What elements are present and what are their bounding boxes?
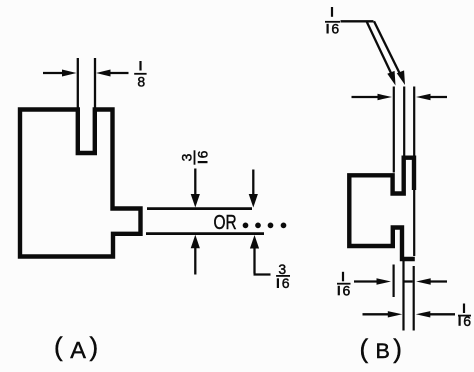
sheet line upper left [393, 87, 395, 173]
svg-text:6: 6 [195, 150, 211, 158]
extension line right (slot) [94, 58, 96, 108]
svg-text:6: 6 [331, 21, 339, 37]
leader arrowhead 1 [387, 71, 395, 86]
up arrow 2 with leader to 3/16 [250, 235, 271, 275]
svg-text:A: A [70, 337, 86, 363]
svg-text:6: 6 [463, 313, 471, 329]
svg-text:(: ( [54, 332, 63, 362]
sheet line lower right [413, 266, 415, 331]
sheet line lower middle [402, 260, 404, 331]
fraction 1/16 top (figure B) [325, 7, 340, 37]
B dim1 right arrow [416, 278, 447, 284]
svg-text:8: 8 [137, 74, 145, 90]
leader slanted line 2 [374, 21, 400, 73]
dot 4 [281, 223, 287, 229]
fraction 3/16 bottom [276, 261, 290, 291]
sheet line mid right [413, 190, 415, 256]
fraction 3/16 rotated [178, 150, 210, 164]
label ( A ) [54, 332, 98, 364]
leader horizontal from 1/16 [341, 20, 374, 22]
B dim1 middle bar [404, 280, 412, 282]
B top dimension right arrow [416, 94, 447, 100]
fraction 1/8 [134, 61, 146, 90]
leader arrowhead 2 [397, 70, 405, 85]
gap upper line [147, 207, 252, 210]
svg-text:(: ( [360, 334, 369, 364]
sheet line lower left [393, 265, 395, 298]
up arrow 1 (lower left of gap) [191, 235, 200, 275]
B dim1 left arrow [354, 278, 391, 284]
B dim2 left arrow [363, 311, 403, 317]
svg-text:): ) [393, 334, 402, 364]
svg-text:6: 6 [343, 283, 351, 299]
dimension arrow left of slot [43, 70, 77, 77]
down arrow 1 (upper left of gap) [191, 169, 200, 208]
dimension arrow right of slot [96, 70, 129, 77]
svg-text:3: 3 [178, 153, 194, 161]
B top dimension left arrow [352, 94, 393, 100]
B dim2 right arrow [416, 311, 455, 317]
extension line left (slot) [77, 58, 79, 108]
B dim2 fraction 1/16 right [458, 304, 471, 330]
down arrow 2 (upper right of gap) [249, 170, 258, 208]
dot 2 [255, 223, 261, 229]
figure A block outline [20, 110, 141, 257]
svg-text:6: 6 [282, 275, 290, 291]
figure B block with hooks [349, 158, 415, 259]
svg-text:OR: OR [214, 211, 237, 234]
svg-text:): ) [90, 332, 99, 362]
dot 1 [243, 223, 249, 229]
svg-text:B: B [376, 339, 390, 363]
dot 3 [268, 223, 274, 229]
sheet line upper middle [403, 87, 405, 159]
gap lower line [146, 232, 264, 235]
B dim1 left: fraction 1/16 [337, 272, 351, 299]
label ( B ) [360, 334, 402, 364]
sheet line upper right [413, 87, 415, 159]
leader slanted line 1 [367, 21, 392, 73]
